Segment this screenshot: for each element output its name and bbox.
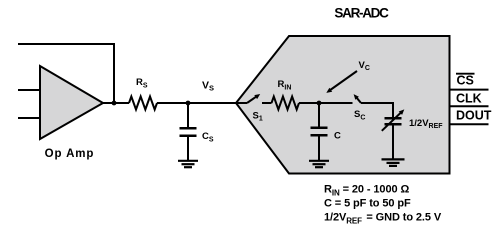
svg-text:C: C xyxy=(334,131,341,142)
pin CS wire xyxy=(450,89,489,91)
svg-text:1/2VREF = GND to 2.5 V: 1/2VREF = GND to 2.5 V xyxy=(324,212,442,226)
svg-text:DOUT: DOUT xyxy=(456,109,492,123)
wire S1 to RIN xyxy=(262,102,272,104)
node output junction xyxy=(112,101,117,106)
pin CLK wire xyxy=(450,105,489,107)
resistor RIN xyxy=(272,97,299,110)
capacitor C xyxy=(311,103,328,160)
switch SC xyxy=(354,94,361,103)
svg-text:Op Amp: Op Amp xyxy=(45,148,95,160)
wire RS to ADC tip xyxy=(157,102,236,104)
switch S1 xyxy=(236,94,260,103)
SAR-ADC body xyxy=(236,36,450,174)
svg-text:SAR-ADC: SAR-ADC xyxy=(334,6,389,21)
op-amp U1 xyxy=(40,66,103,139)
svg-text:CS: CS xyxy=(457,74,474,88)
node RIN/C junction xyxy=(317,101,322,106)
node VS xyxy=(186,101,191,106)
wire SC to VREF cap xyxy=(361,103,393,118)
ground (CS) xyxy=(178,161,198,167)
svg-text:RIN = 20 - 1000 Ω: RIN = 20 - 1000 Ω xyxy=(324,184,409,198)
op-amp input wire (bottom) xyxy=(18,117,40,119)
arrow VC to node xyxy=(326,71,357,93)
svg-text:C = 5 pF to 50 pF: C = 5 pF to 50 pF xyxy=(324,197,411,209)
capacitor CS xyxy=(180,103,197,160)
svg-text:CLK: CLK xyxy=(456,92,482,106)
wire op-amp output xyxy=(103,102,129,104)
ground (VREF) xyxy=(382,159,405,166)
svg-text:CS: CS xyxy=(202,131,214,144)
feedback wire xyxy=(18,44,114,103)
variable capacitor 1/2VREF xyxy=(382,109,405,159)
svg-text:RS: RS xyxy=(136,77,148,90)
ground (C) xyxy=(309,161,329,167)
pin CS label (active low) xyxy=(456,74,475,88)
resistor RS xyxy=(129,97,157,110)
svg-text:VS: VS xyxy=(202,80,214,93)
pin DOUT wire xyxy=(450,123,489,125)
op-amp input wire (top) xyxy=(18,89,40,91)
wire RIN to SC xyxy=(299,102,353,104)
